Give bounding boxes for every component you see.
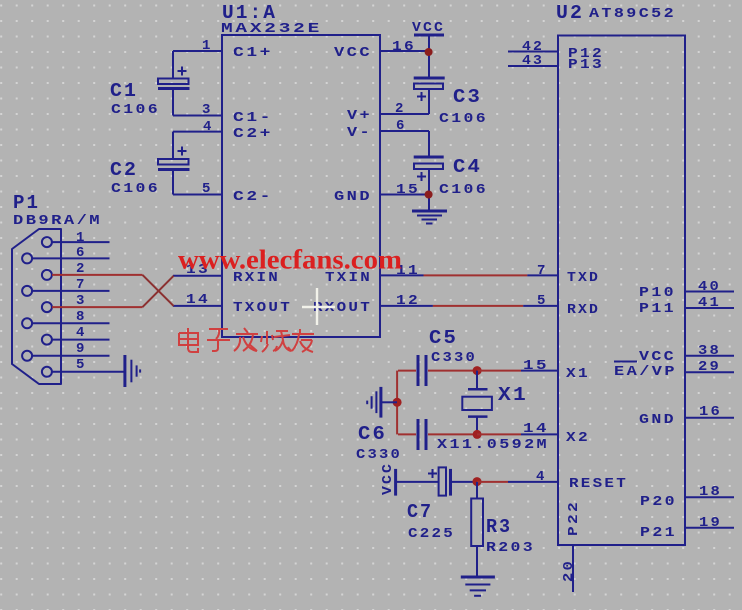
U2 pin number 4 bbox=[536, 469, 546, 485]
U1 pin number 13 bbox=[186, 262, 210, 278]
U1 pin number 4 bbox=[203, 119, 213, 135]
U1 pin number 15 bbox=[396, 182, 420, 198]
C4 value label C106 bbox=[439, 182, 488, 198]
wire C2 to pin5 bbox=[172, 171, 174, 195]
U1 pin label C1+ bbox=[233, 45, 273, 61]
P1 pin number 5 bbox=[76, 357, 86, 373]
wire U1.12 to U2.5 RXD bbox=[380, 305, 558, 307]
svg-text:P11: P11 bbox=[639, 301, 676, 317]
crossover wire P1.3 to U1 RXIN (red) bbox=[143, 276, 174, 307]
svg-text:RESET: RESET bbox=[569, 476, 628, 492]
U1 pin 15 wire bbox=[380, 194, 429, 196]
C6 value label C330 bbox=[356, 447, 402, 463]
svg-text:C4: C4 bbox=[453, 156, 482, 178]
C4 designator bbox=[453, 156, 482, 178]
svg-text:19: 19 bbox=[699, 515, 722, 531]
svg-text:V+: V+ bbox=[347, 108, 372, 124]
svg-text:EA/VP: EA/VP bbox=[614, 364, 677, 380]
svg-text:38: 38 bbox=[698, 343, 721, 359]
svg-text:6: 6 bbox=[396, 118, 406, 134]
U1 pin label V+ bbox=[347, 108, 372, 124]
P1 pin number 3 bbox=[76, 293, 86, 309]
U1 pin number 11 bbox=[396, 263, 420, 279]
P1 pad 1 bbox=[42, 237, 52, 247]
capacitor C7 bbox=[428, 467, 451, 495]
U2 pin label P12 bbox=[568, 46, 604, 62]
junction reset node bbox=[473, 477, 482, 486]
crossover wire P1.2 to U1 TXOUT (red) bbox=[143, 275, 174, 306]
wire X1 node to U2 pin15 (red) bbox=[477, 370, 521, 372]
svg-text:P20: P20 bbox=[640, 494, 677, 510]
U2 pin 18 wire bbox=[685, 496, 734, 498]
U1 pin 1 wire bbox=[173, 50, 222, 52]
svg-text:C106: C106 bbox=[439, 182, 488, 198]
U2 pin label X2 bbox=[566, 430, 590, 446]
svg-text:C2+: C2+ bbox=[233, 126, 273, 142]
junction crystal ground node bbox=[393, 398, 402, 407]
U1 pin label RXOUT bbox=[313, 300, 372, 316]
wire pin1 to C1 bbox=[172, 51, 174, 79]
svg-text:14: 14 bbox=[523, 421, 549, 437]
U1 pin label C2- bbox=[233, 189, 273, 205]
watermark chinese char 发 bbox=[234, 328, 258, 351]
capacitor C6 bbox=[398, 419, 477, 450]
U2 pin number 19 bbox=[699, 515, 722, 531]
U2 pin number 16 bbox=[699, 404, 722, 420]
U2 pin number 15 bbox=[523, 358, 549, 374]
cursor crosshair bbox=[302, 288, 335, 325]
U1 pin number 3 bbox=[202, 102, 212, 118]
svg-text:VCC: VCC bbox=[334, 45, 372, 61]
U2 pin label VCC bbox=[639, 349, 676, 365]
C1 designator bbox=[110, 80, 138, 102]
svg-text:P13: P13 bbox=[568, 57, 604, 73]
svg-text:MAX232E: MAX232E bbox=[221, 21, 322, 37]
wire U1.11 to U2.7 TXD bbox=[380, 274, 558, 276]
C3 value label C106 bbox=[439, 111, 488, 127]
U2 pin label P21 bbox=[640, 525, 677, 541]
U2 pin number 7 bbox=[537, 263, 547, 279]
C1 value label C106 bbox=[111, 102, 160, 118]
U2 pin number 18 bbox=[699, 484, 722, 500]
svg-text:3: 3 bbox=[202, 102, 212, 118]
svg-text:C2-: C2- bbox=[233, 189, 273, 205]
svg-text:18: 18 bbox=[699, 484, 722, 500]
P1 pin number 4 bbox=[76, 325, 86, 341]
svg-text:1: 1 bbox=[202, 38, 212, 54]
svg-text:15: 15 bbox=[523, 358, 549, 374]
capacitor C2 bbox=[158, 147, 190, 170]
P1 pin number 6 bbox=[76, 245, 86, 261]
svg-text:X1: X1 bbox=[498, 384, 528, 406]
svg-text:7: 7 bbox=[537, 263, 547, 279]
P1 pin 2 wire (red) bbox=[52, 274, 143, 276]
svg-text:C106: C106 bbox=[439, 111, 488, 127]
svg-text:X11.0592M: X11.0592M bbox=[437, 437, 549, 453]
wire VCC to C7 bbox=[396, 481, 438, 483]
U2 pin 19 wire bbox=[685, 527, 734, 529]
svg-text:C1: C1 bbox=[110, 80, 138, 102]
svg-text:4: 4 bbox=[76, 325, 86, 341]
P1 pin 5 wire bbox=[52, 371, 124, 373]
capacitor C5 bbox=[398, 355, 477, 386]
U1 pin number 16 bbox=[392, 39, 416, 55]
svg-text:X2: X2 bbox=[566, 430, 590, 446]
P1 pin 6 wire bbox=[32, 257, 110, 259]
wire X2 node to U2 pin14 (red) bbox=[477, 433, 521, 435]
U1 pin 16 wire bbox=[380, 50, 429, 52]
svg-text:VCC: VCC bbox=[412, 20, 445, 36]
svg-text:R3: R3 bbox=[486, 516, 512, 538]
wire C1 to pin3 bbox=[172, 90, 174, 116]
svg-text:4: 4 bbox=[536, 469, 546, 485]
U1 pin label C1- bbox=[233, 110, 273, 126]
X1 value label X11.0592M bbox=[437, 437, 549, 453]
node X1 junction top bbox=[473, 366, 482, 375]
U2 pin 14 wire X2 bbox=[521, 433, 558, 435]
svg-text:7: 7 bbox=[76, 277, 86, 293]
P1 pin number 8 bbox=[76, 309, 86, 325]
wire C3 to pin2 bbox=[428, 89, 430, 114]
svg-text:C106: C106 bbox=[111, 181, 160, 197]
svg-text:X1: X1 bbox=[566, 366, 590, 382]
svg-text:C330: C330 bbox=[431, 350, 477, 366]
U1 pin label RXIN bbox=[233, 270, 280, 286]
U2 pin number 38 bbox=[698, 343, 721, 359]
svg-text:VCC: VCC bbox=[639, 349, 676, 365]
svg-text:8: 8 bbox=[76, 309, 86, 325]
P1 value label DB9RA/M bbox=[13, 213, 102, 229]
P1 pin 4 wire bbox=[52, 339, 110, 341]
watermark chinese char 烧 bbox=[261, 331, 292, 352]
U1 pin label TXIN bbox=[325, 270, 372, 286]
svg-text:40: 40 bbox=[698, 279, 721, 295]
U2 pin label GND bbox=[639, 412, 676, 428]
svg-text:P1: P1 bbox=[13, 192, 40, 214]
C5 value label C330 bbox=[431, 350, 477, 366]
svg-text:AT89C52: AT89C52 bbox=[589, 6, 676, 22]
capacitor C4 bbox=[414, 157, 444, 181]
C2 value label C106 bbox=[111, 181, 160, 197]
power VCC symbol (rotated, reset) bbox=[380, 462, 396, 496]
svg-text:5: 5 bbox=[76, 357, 86, 373]
watermark chinese char 电 bbox=[179, 328, 198, 352]
U2 pin 29 wire bbox=[685, 371, 734, 373]
U1 pin number 2 bbox=[395, 101, 405, 117]
watermark chinese char 子 bbox=[207, 329, 230, 351]
U2 pin 4 wire RESET bbox=[508, 481, 558, 483]
U1 pin 2 wire bbox=[380, 113, 429, 115]
svg-text:14: 14 bbox=[186, 292, 210, 308]
P1 pin 7 wire bbox=[32, 290, 110, 292]
svg-text:DB9RA/M: DB9RA/M bbox=[13, 213, 102, 229]
junction VCC/pin16 bbox=[425, 48, 433, 56]
svg-text:3: 3 bbox=[76, 293, 86, 309]
U2 designator bbox=[556, 2, 584, 24]
U1 value label MAX232E bbox=[221, 21, 322, 37]
junction pin15/GND bbox=[425, 191, 433, 199]
C6 designator bbox=[358, 423, 387, 445]
svg-text:P21: P21 bbox=[640, 525, 677, 541]
svg-text:15: 15 bbox=[396, 182, 420, 198]
U1 pin 5 wire bbox=[173, 194, 222, 196]
C2 designator bbox=[110, 159, 138, 181]
svg-text:RXD: RXD bbox=[567, 302, 600, 318]
capacitor C1 bbox=[158, 67, 190, 89]
U1 pin 14 wire bbox=[173, 305, 222, 307]
U2 pin 42 wire bbox=[508, 51, 558, 53]
ground symbol below R3 bbox=[461, 577, 495, 596]
svg-text:5: 5 bbox=[537, 293, 547, 309]
U2 pin label P20 bbox=[640, 494, 677, 510]
U2 pin label RXD bbox=[567, 302, 600, 318]
C5 designator bbox=[429, 327, 458, 349]
U1 pin label V- bbox=[347, 125, 372, 141]
P1 pad 6 bbox=[22, 253, 32, 263]
U2 pin 16 wire bbox=[685, 417, 734, 419]
U1 designator label U1:A bbox=[222, 2, 277, 24]
svg-text:41: 41 bbox=[698, 295, 721, 311]
P1 pad 8 bbox=[22, 318, 32, 328]
ground symbol left of crystal (sideways) bbox=[367, 387, 381, 418]
connector P1 body bbox=[12, 229, 61, 384]
U2 pin label EA/VP with overline bbox=[614, 362, 677, 381]
U2 pin number 42 bbox=[522, 39, 544, 55]
svg-text:V-: V- bbox=[347, 125, 372, 141]
U1 pin label VCC bbox=[334, 45, 372, 61]
U2 pin label RESET bbox=[569, 476, 628, 492]
svg-text:U2: U2 bbox=[556, 2, 584, 24]
C7 designator bbox=[407, 501, 433, 523]
svg-text:43: 43 bbox=[522, 53, 544, 69]
U2 pin 15 wire X1 bbox=[521, 370, 558, 372]
U2 pin number 29 bbox=[698, 359, 721, 375]
svg-text:VCC: VCC bbox=[380, 462, 396, 495]
svg-text:C3: C3 bbox=[453, 86, 482, 108]
P1 pad 5 bbox=[42, 367, 52, 377]
connector P1 designator bbox=[13, 192, 40, 214]
ground symbol at P1 pin 5 (sideways) bbox=[125, 355, 140, 387]
svg-text:2: 2 bbox=[395, 101, 405, 117]
U1 pin 6 wire bbox=[380, 130, 429, 132]
svg-text:C2: C2 bbox=[110, 159, 138, 181]
svg-text:16: 16 bbox=[699, 404, 722, 420]
P1 pin 1 wire bbox=[52, 241, 110, 243]
svg-text:C106: C106 bbox=[111, 102, 160, 118]
svg-text:C225: C225 bbox=[408, 526, 455, 542]
svg-text:4: 4 bbox=[203, 119, 213, 135]
U2 pin 43 wire bbox=[508, 65, 558, 67]
U2 pin number 20 bbox=[561, 559, 577, 582]
svg-text:6: 6 bbox=[76, 245, 86, 261]
svg-text:C1-: C1- bbox=[233, 110, 273, 126]
P1 pin 8 wire bbox=[32, 322, 110, 324]
IC U2 AT89C52 body bbox=[558, 36, 685, 546]
X1 designator bbox=[498, 384, 528, 406]
U2 value label AT89C52 bbox=[589, 6, 676, 22]
wire C7 to reset node bbox=[452, 481, 477, 483]
U2 pin 20 wire bbox=[572, 545, 574, 592]
svg-text:C330: C330 bbox=[356, 447, 402, 463]
wire reset node to U2 pin4 (red) bbox=[477, 481, 508, 483]
U1 pin number 12 bbox=[396, 293, 420, 309]
R3 designator bbox=[486, 516, 512, 538]
svg-text:P10: P10 bbox=[639, 285, 676, 301]
U1 pin 13 wire bbox=[173, 275, 222, 277]
U2 pin number 40 bbox=[698, 279, 721, 295]
watermark chinese char 友 bbox=[292, 329, 314, 352]
wire pin4 to C2 bbox=[172, 132, 174, 159]
U1 pin number 1 bbox=[202, 38, 212, 54]
U2 pin label X1 bbox=[566, 366, 590, 382]
U2 pin number 43 bbox=[522, 53, 544, 69]
resistor R3 bbox=[471, 499, 483, 547]
svg-text:1: 1 bbox=[76, 230, 86, 246]
svg-text:GND: GND bbox=[334, 189, 372, 205]
wire VCC to C3 bbox=[428, 35, 430, 77]
U2 pin label P10 bbox=[639, 285, 676, 301]
U2 pin label P22 (rotated) bbox=[566, 500, 582, 536]
svg-text:C1+: C1+ bbox=[233, 45, 273, 61]
P1 pin number 1 bbox=[76, 230, 86, 246]
U2 pin number 14 bbox=[523, 421, 549, 437]
P1 pad 4 bbox=[42, 335, 52, 345]
U1 pin 4 wire bbox=[173, 131, 222, 133]
P1 pin number 7 bbox=[76, 277, 86, 293]
P1 pad 9 bbox=[22, 351, 32, 361]
P1 pin 3 wire (red) bbox=[52, 306, 143, 308]
svg-text:C6: C6 bbox=[358, 423, 387, 445]
svg-text:9: 9 bbox=[76, 341, 86, 357]
wire C4 to pin15/ground bbox=[428, 169, 430, 211]
svg-text:16: 16 bbox=[392, 39, 416, 55]
U2 pin number 41 bbox=[698, 295, 721, 311]
U2 pin label TXD bbox=[567, 270, 600, 286]
U1 pin number 5 bbox=[202, 181, 212, 197]
svg-text:C7: C7 bbox=[407, 501, 433, 523]
U1 pin label GND bbox=[334, 189, 372, 205]
watermark www.elecfans.com bbox=[178, 245, 403, 275]
P1 pad 2 bbox=[42, 270, 52, 280]
U1 pin 3 wire bbox=[173, 115, 222, 117]
svg-text:R203: R203 bbox=[486, 540, 535, 556]
wire R3 to ground bbox=[476, 546, 478, 576]
svg-text:5: 5 bbox=[202, 181, 212, 197]
wire ground stub to junction bbox=[381, 401, 397, 403]
ground symbol below C4 bbox=[412, 211, 447, 224]
svg-text:www.elecfans.com: www.elecfans.com bbox=[178, 245, 403, 275]
op-amp U1 MAX232E body bbox=[222, 35, 380, 337]
P1 pin number 2 bbox=[76, 261, 86, 277]
U2 pin 41 wire bbox=[685, 307, 734, 309]
wire reset node to R3 bbox=[476, 482, 478, 499]
C3 designator bbox=[453, 86, 482, 108]
C7 value label C225 bbox=[408, 526, 455, 542]
wire crystal caps common (red vertical) bbox=[396, 371, 398, 435]
R3 value label R203 bbox=[486, 540, 535, 556]
svg-text:TXD: TXD bbox=[567, 270, 600, 286]
U1 pin label C2+ bbox=[233, 126, 273, 142]
U2 pin 40 wire bbox=[685, 291, 734, 293]
svg-text:TXOUT: TXOUT bbox=[233, 300, 292, 316]
U2 pin number 5 bbox=[537, 293, 547, 309]
U1 pin number 6 bbox=[396, 118, 406, 134]
U2 pin label P13 bbox=[568, 57, 604, 73]
power VCC symbol bbox=[412, 20, 445, 36]
svg-text:GND: GND bbox=[639, 412, 676, 428]
P1 pin 9 wire bbox=[32, 355, 110, 357]
U2 pin label P11 bbox=[639, 301, 676, 317]
U1 pin label TXOUT bbox=[233, 300, 292, 316]
svg-text:P22: P22 bbox=[566, 500, 582, 536]
P1 pad 7 bbox=[22, 286, 32, 296]
node X2 junction bottom bbox=[473, 430, 482, 439]
crystal X1 bbox=[462, 371, 492, 435]
svg-text:2: 2 bbox=[76, 261, 86, 277]
svg-text:29: 29 bbox=[698, 359, 721, 375]
P1 pad 3 bbox=[42, 302, 52, 312]
svg-text:C5: C5 bbox=[429, 327, 458, 349]
U1 pin number 14 bbox=[186, 292, 210, 308]
capacitor C3 bbox=[414, 78, 445, 101]
U2 pin 38 wire bbox=[685, 355, 734, 357]
P1 pin number 9 bbox=[76, 341, 86, 357]
svg-text:20: 20 bbox=[561, 559, 577, 582]
wire pin6 to C4 bbox=[428, 131, 430, 156]
